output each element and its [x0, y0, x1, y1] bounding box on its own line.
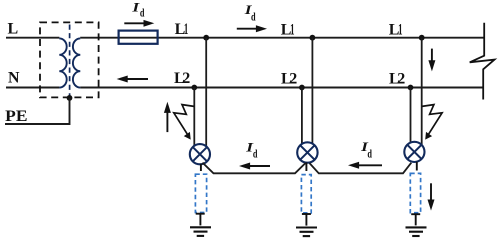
node: lamp2 tap on L2	[299, 85, 305, 91]
transformer T core (dashed centre line)	[69, 25, 71, 97]
svg-text:d: d	[140, 6, 145, 20]
svg-text:2: 2	[182, 70, 190, 87]
label L2 (third)	[389, 71, 405, 88]
wire L phase conductor (left segment into transformer)	[6, 37, 59, 39]
dashed earth path rectangle lamp2	[301, 175, 311, 213]
earth connector T-bar lamp3	[411, 214, 420, 225]
label Id (return line 2)	[360, 140, 372, 160]
wire: lamp1 drop from L1	[205, 38, 207, 147]
wire: return line lamp2 to lamp3	[310, 163, 412, 174]
arrow: fault current down between L1 and L2 (lamp3)	[428, 49, 435, 72]
svg-text:d: d	[367, 147, 372, 161]
ground symbol lamp3	[406, 227, 427, 236]
wire: lamp2 drop from L2	[301, 88, 303, 146]
label L1 (second)	[281, 22, 295, 39]
transformer T primary winding	[59, 38, 66, 87]
label Id (top second)	[243, 3, 255, 23]
arrow current to the left on N line	[117, 76, 148, 83]
arrow Id to the left (return line 2)	[348, 162, 382, 169]
ground symbol lamp2	[296, 228, 317, 237]
svg-text:N: N	[8, 70, 20, 87]
node: lamp2 tap on L1	[310, 35, 316, 41]
label L2 (second)	[281, 71, 297, 88]
wire: lamp3 drop from L2	[410, 88, 412, 146]
svg-text:L: L	[8, 20, 19, 37]
fault bolt arrow at lamp3	[422, 105, 442, 140]
earth connector T-bar lamp2	[302, 214, 311, 226]
arrow Id to the right (above fuse)	[124, 20, 154, 27]
label Id (above fuse)	[131, 0, 145, 19]
dashed earth path rectangle lamp1	[195, 174, 206, 212]
svg-text:d: d	[251, 9, 256, 23]
arrow: fault current up (left of lamp1)	[164, 102, 171, 132]
wire: return line lamp1 to lamp2	[203, 163, 306, 174]
wire L2 conductor (transformer to right break)	[80, 87, 483, 89]
svg-text:2: 2	[397, 71, 405, 88]
svg-text:d: d	[253, 146, 258, 160]
node: lamp3 tap on L1	[419, 35, 425, 41]
svg-text:1: 1	[290, 22, 294, 39]
node: lamp1 tap on L2	[191, 85, 197, 91]
node: transformer earthing point	[67, 95, 73, 101]
svg-text:1: 1	[398, 22, 402, 39]
wire: lamp1 drop from L2	[193, 88, 195, 148]
lamp E1 (circle with cross)	[190, 144, 210, 164]
fuse F1	[119, 31, 158, 44]
fault bolt arrow at lamp1	[174, 105, 194, 140]
line break symbol at right edge	[470, 23, 495, 100]
wire: lamp2 drop from L1	[311, 38, 313, 146]
svg-text:2: 2	[289, 71, 297, 88]
wire: lamp1 stub to earth path	[200, 164, 202, 171]
wire N conductor (left segment into transformer)	[6, 87, 59, 89]
lamp E2 (circle with cross)	[297, 142, 317, 162]
label L1 (first)	[175, 21, 189, 38]
wire: lamp3 stub to earth path	[416, 162, 418, 171]
label L1 (third)	[389, 22, 403, 39]
arrow: fault current down near lamp3 ground	[428, 183, 435, 210]
wire L1 phase conductor (transformer to right break)	[80, 37, 484, 39]
transformer T secondary winding	[73, 38, 80, 87]
wire: lamp3 drop from L1	[421, 38, 423, 146]
transformer T enclosure (dashed box)	[40, 22, 99, 97]
label Id (return line 1)	[245, 141, 258, 161]
wire: lamp2 stub to earth path	[305, 162, 307, 171]
svg-text:1: 1	[184, 21, 188, 38]
dashed earth path rectangle lamp3	[410, 173, 420, 212]
node: lamp1 tap on L1	[203, 35, 209, 41]
node: lamp3 tap on L2	[408, 85, 414, 91]
label L2 (first)	[174, 70, 190, 87]
wire PE conductor	[5, 98, 70, 124]
lamp E3 (circle with cross)	[404, 142, 424, 162]
svg-text:PE: PE	[5, 108, 27, 125]
arrow Id to the right (top, after first L1)	[237, 25, 267, 32]
arrow Id to the left (return line 1)	[239, 163, 270, 170]
earth connector T-bar lamp1	[196, 214, 205, 226]
ground symbol lamp1	[190, 227, 211, 236]
